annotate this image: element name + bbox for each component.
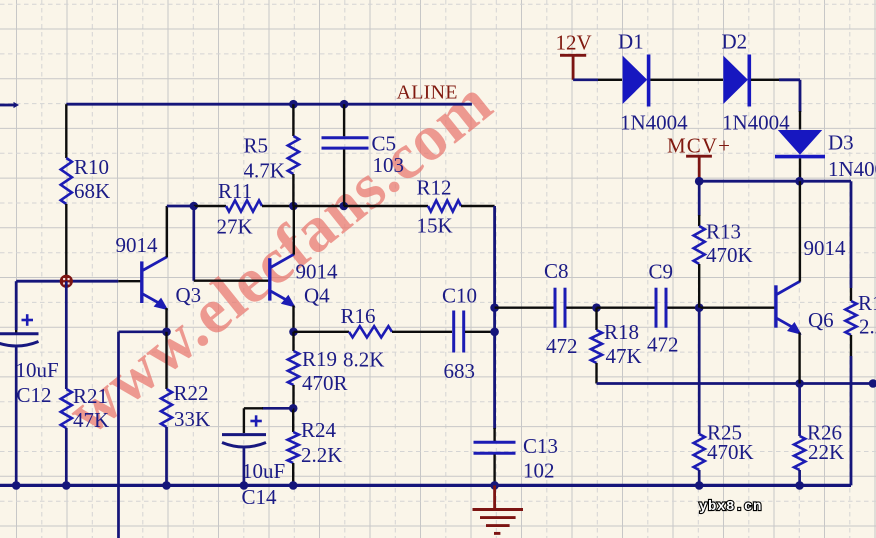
wire R12 right lead to corner <box>461 205 495 207</box>
junction R5 bottom node <box>289 202 298 211</box>
resistor R11 zigzag <box>226 200 262 211</box>
transistor Q3 collector diagonal <box>143 257 168 271</box>
transistor Q3 emitter diagonal <box>143 294 164 306</box>
svg-text:8.2K: 8.2K <box>343 348 384 372</box>
capacitor C9 left plate <box>655 288 658 328</box>
capacitor C14 top plate <box>222 433 266 436</box>
capacitor C14 curved plate <box>222 443 266 448</box>
transistor Q6 base bar <box>774 285 777 327</box>
wire R13 bottom lead <box>698 264 700 308</box>
resistor R22 zigzag <box>161 389 172 427</box>
svg-text:R11: R11 <box>218 179 252 203</box>
wire R22 upper segment <box>165 332 167 389</box>
diode D3 cathode bar <box>775 155 825 159</box>
wire corner down to D3 <box>799 80 802 112</box>
wire left vertical to C12 <box>15 281 18 330</box>
svg-text:R19: R19 <box>302 347 337 371</box>
resistor R5 zigzag <box>288 136 299 174</box>
wire right column upper <box>850 181 853 288</box>
capacitor C9 right plate <box>665 288 668 328</box>
capacitor C13 bottom plate <box>474 452 516 455</box>
wire R19 bottom lead <box>292 385 294 408</box>
transistor Q4 emitter arrow <box>281 295 296 308</box>
wire R22 bottom to bus <box>165 427 168 485</box>
capacitor C8 left plate <box>554 288 557 328</box>
svg-text:33K: 33K <box>174 407 210 431</box>
junction bus-R21 <box>62 481 71 490</box>
svg-text:Q3: Q3 <box>176 283 202 307</box>
capacitor C12 top plate <box>0 332 39 335</box>
wire 12V to D1 <box>573 78 598 81</box>
wire Q6 emitter lead <box>798 333 800 384</box>
junction R11 left node <box>190 202 199 211</box>
resistor R24 zigzag <box>288 432 299 463</box>
junction x494 at C10 row <box>490 328 499 337</box>
svg-text:27K: 27K <box>217 215 253 239</box>
svg-text:1N4004: 1N4004 <box>828 157 876 181</box>
junction R24 top node <box>289 404 298 413</box>
junction C5 bottom node <box>340 202 349 211</box>
svg-text:10uF: 10uF <box>16 358 59 382</box>
transistor Q3 emitter arrow <box>154 298 169 311</box>
resistor R19 zigzag <box>288 351 299 385</box>
svg-text:47K: 47K <box>73 408 109 432</box>
resistor R12 zigzag <box>428 200 461 211</box>
transistor Q4 collector diagonal <box>271 254 295 267</box>
wire R25 upper segment <box>698 308 701 434</box>
wire R18 top lead <box>595 308 597 330</box>
resistor R25 zigzag <box>694 434 705 470</box>
svg-text:D1: D1 <box>618 30 644 54</box>
svg-text:470R: 470R <box>302 371 348 395</box>
junction MCV+ node <box>695 177 704 186</box>
wire R5 top lead <box>292 104 294 136</box>
resistor R17 zigzag (right edge) <box>845 301 856 335</box>
wire R16 to C10 <box>392 331 452 333</box>
wire R25 bottom lead <box>698 470 701 485</box>
junction bus-C12 <box>12 481 21 490</box>
svg-text:R12: R12 <box>417 176 452 200</box>
wire net ALINE horizontal <box>66 103 472 106</box>
junction bus-R25 <box>695 481 704 490</box>
wire C5 top lead <box>343 104 345 136</box>
wire D1 to D2 <box>650 79 723 81</box>
svg-text:D2: D2 <box>722 30 748 54</box>
svg-text:D3: D3 <box>828 131 854 155</box>
wire R11 left lead <box>194 205 226 207</box>
svg-text:R18: R18 <box>604 320 639 344</box>
wire emitter return horizontal <box>597 382 874 385</box>
capacitor C8 right plate <box>564 288 567 328</box>
wire right resistor top lead <box>850 288 852 301</box>
transistor Q4 base bar <box>268 258 271 300</box>
transistor Q4 emitter diagonal <box>271 291 292 303</box>
svg-text:9014: 9014 <box>296 260 339 284</box>
wire main vertical x494 <box>493 206 496 429</box>
wire C14 bottom lead <box>243 449 246 486</box>
svg-text:ybx8.cn: ybx8.cn <box>699 499 762 515</box>
svg-text:103: 103 <box>373 153 405 177</box>
svg-text:ALINE: ALINE <box>397 82 458 104</box>
wire R26 bottom lead <box>798 470 801 485</box>
wire Q3 collector top elbow <box>167 205 194 208</box>
capacitor C13 top plate <box>474 441 516 444</box>
svg-text:1N4004: 1N4004 <box>620 111 688 135</box>
wire right resistor bottom lead <box>850 335 852 356</box>
ground symbol <box>493 485 496 508</box>
junction bus-C13 <box>490 481 499 490</box>
svg-text:R5: R5 <box>244 134 269 158</box>
svg-text:15K: 15K <box>417 214 453 238</box>
wire C14 top lead <box>243 408 245 433</box>
wire Q3 collector vertical <box>166 206 168 257</box>
wire R10 bottom to node A <box>65 204 67 281</box>
svg-text:683: 683 <box>444 359 476 383</box>
svg-text:C12: C12 <box>17 383 52 407</box>
svg-text:9014: 9014 <box>804 236 847 260</box>
svg-text:68K: 68K <box>74 179 110 203</box>
wire C8 to R18 node <box>566 307 596 309</box>
svg-text:R24: R24 <box>301 418 337 442</box>
svg-text:C13: C13 <box>523 434 558 458</box>
wire base net horizontal left <box>16 280 118 283</box>
junction D3 output node <box>795 177 804 186</box>
junction bus-R26 <box>795 481 804 490</box>
capacitor C10 left plate <box>452 311 455 353</box>
wire Q6 base wire <box>699 307 774 309</box>
resistor R26 zigzag <box>794 436 805 470</box>
transistor Q6 emitter arrow <box>787 322 802 335</box>
power port MCV+ bar <box>686 155 712 158</box>
capacitor C12 plus sign <box>22 319 34 322</box>
wire R21 bottom to bus <box>65 428 68 485</box>
diode D1 triangle <box>623 56 648 104</box>
junction Q4 emitter node <box>289 328 298 337</box>
wire D3 bottom lead <box>799 158 801 181</box>
svg-text:Q4: Q4 <box>304 284 330 308</box>
transistor Q3 base bar <box>140 261 143 303</box>
wire R18 bottom lead <box>595 363 597 384</box>
svg-text:R21: R21 <box>73 384 108 408</box>
svg-text:4.7K: 4.7K <box>244 159 285 183</box>
wire Q4 collector vertical <box>293 206 295 255</box>
wire C5 bottom lead <box>343 150 345 207</box>
junction R18 top node <box>592 303 601 312</box>
junction C9 right node <box>695 303 704 312</box>
junction ALINE-C5 node <box>340 100 349 109</box>
svg-text:C5: C5 <box>372 132 397 156</box>
svg-text:MCV+: MCV+ <box>667 134 730 158</box>
wire right column lower <box>850 356 853 485</box>
wire MCV+ rail horizontal <box>699 180 851 183</box>
capacitor C5 top plate <box>322 136 369 139</box>
wire C9 to MCV column <box>667 307 699 309</box>
wire R24 bottom lead <box>292 463 294 485</box>
wire R11 right lead <box>262 205 293 207</box>
svg-text:R16: R16 <box>341 304 376 328</box>
power port 12V bar <box>560 54 586 57</box>
junction Q3 emitter node <box>162 328 171 337</box>
capacitor C14 plus sign <box>250 420 261 423</box>
resistor R18 zigzag <box>591 330 602 363</box>
svg-text:472: 472 <box>647 333 679 357</box>
capacitor C12 top lead <box>15 330 17 334</box>
wire R16 left lead <box>294 331 350 333</box>
svg-text:C14: C14 <box>242 485 278 509</box>
wire R19 top lead <box>292 332 294 351</box>
junction bus-R22 <box>162 481 171 490</box>
wire Q4 base drop vertical <box>192 206 195 281</box>
capacitor C10 right plate <box>462 311 465 353</box>
resistor R1 (R10) zigzag <box>61 158 72 204</box>
svg-text:R13: R13 <box>706 220 741 244</box>
node A off-grid junction (maroon) <box>60 275 73 288</box>
svg-text:R22: R22 <box>174 381 209 405</box>
wire C5 to R12 <box>344 205 428 207</box>
junction bus-C14 <box>240 481 249 490</box>
svg-text:47K: 47K <box>606 344 642 368</box>
wire Q3 base lead <box>118 280 140 282</box>
wire R5C5 link <box>293 205 343 207</box>
svg-text:9014: 9014 <box>116 233 159 257</box>
wire x494 to C8 <box>495 307 554 309</box>
wire x118 vertical to bottom edge <box>117 332 120 538</box>
svg-text:C9: C9 <box>649 260 674 284</box>
wire Q4 emitter lead <box>292 306 294 332</box>
svg-text:470K: 470K <box>707 440 754 464</box>
resistor R13 zigzag <box>694 226 705 264</box>
transistor Q6 emitter diagonal <box>777 318 798 330</box>
power port 12V stem <box>572 55 575 80</box>
junction Q6 emitter node <box>795 379 804 388</box>
svg-text:470K: 470K <box>706 243 753 267</box>
resistor R21 zigzag <box>61 389 72 428</box>
svg-text:C10: C10 <box>442 284 477 308</box>
wire R21 upper segment <box>65 281 68 389</box>
wire C12 bottom to bus <box>15 348 18 486</box>
wire R24 top lead <box>292 408 294 432</box>
wire R26 upper segment <box>798 384 801 437</box>
svg-text:R1: R1 <box>858 291 876 315</box>
diode D3 triangle <box>778 130 822 155</box>
wire Q4 base horizontal <box>194 280 269 282</box>
wire D2 to corner <box>751 79 780 81</box>
junction bus-R24 <box>289 481 298 490</box>
svg-text:22K: 22K <box>808 440 844 464</box>
junction right end node <box>869 379 876 388</box>
capacitor C5 bottom plate <box>322 147 369 150</box>
wire R10 top lead from ALINE <box>65 104 67 158</box>
resistor R16 zigzag <box>349 326 392 337</box>
svg-text:12V: 12V <box>556 31 592 55</box>
diode D2 triangle <box>723 56 748 104</box>
diode D2 cathode bar <box>747 55 751 107</box>
svg-text:10uF: 10uF <box>242 459 285 483</box>
wire C13 bottom lead <box>493 455 495 486</box>
junction x494 at C8 row <box>490 303 499 312</box>
wire R18 node to C9 <box>597 307 655 309</box>
wire R5 bottom lead <box>292 174 294 206</box>
wire off-sheet stub top-left <box>0 104 15 107</box>
wire Q6 collector vertical <box>799 181 801 281</box>
wire Q3 emitter lead <box>165 308 167 332</box>
svg-text:2.2: 2.2 <box>859 315 876 339</box>
svg-text:C8: C8 <box>544 259 569 283</box>
svg-text:R10: R10 <box>74 155 109 179</box>
svg-text:2.2K: 2.2K <box>301 443 342 467</box>
wire C14 link horizontal <box>262 407 293 410</box>
junction ALINE-R5 node <box>289 100 298 109</box>
wire ground bus <box>0 484 851 487</box>
svg-text:102: 102 <box>523 459 555 483</box>
wire C10 right lead <box>465 331 495 333</box>
capacitor C12 curved plate <box>0 342 39 347</box>
wire R13 top lead <box>698 181 701 216</box>
svg-text:Q6: Q6 <box>808 308 834 332</box>
power port MCV+ stem <box>698 156 701 181</box>
diode D1 cathode bar <box>647 55 651 107</box>
wire emitter node to x118 column <box>119 330 167 333</box>
svg-text:472: 472 <box>546 334 578 358</box>
transistor Q6 collector diagonal <box>777 281 801 294</box>
